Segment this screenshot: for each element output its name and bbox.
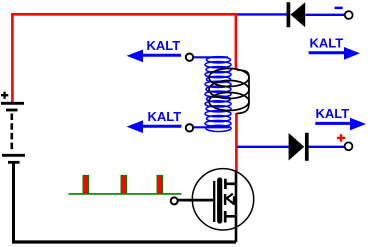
label KALT left top: [127, 38, 182, 62]
wire blue coil top lead: [193, 56, 228, 58]
wire black left vertical: [12, 163, 15, 243]
wire black bottom horizontal: [12, 240, 236, 243]
wire red top horizontal: [11, 13, 237, 16]
wire blue from top diode to terminal: [306, 14, 346, 16]
pulse 1: [83, 176, 88, 194]
wire blue to bottom diode: [237, 146, 289, 148]
pulse 2: [121, 176, 126, 194]
terminal minus top right: [345, 11, 353, 19]
diode D1: [288, 2, 305, 27]
wire red center vertical lower: [235, 113, 238, 172]
terminal gate: [171, 197, 178, 204]
battery B1: [1, 103, 25, 162]
MOSFET Q1 body circle: [192, 169, 253, 230]
svg-text:KALT: KALT: [147, 38, 181, 53]
wire blue coil bottom lead: [194, 126, 229, 128]
MOSFET Q1 source stub: [225, 211, 236, 223]
primary coil L1 blue: [205, 57, 231, 132]
label minus: [335, 7, 343, 10]
label KALT right bottom: [315, 106, 366, 130]
terminal coil bottom left: [186, 124, 193, 131]
label plus red: [337, 134, 345, 142]
label KALT left bottom: [127, 109, 182, 133]
MOSFET Q1 body tick: [224, 194, 226, 205]
MOSFET Q1 gate electrode: [213, 181, 215, 222]
terminal plus bottom right: [345, 142, 353, 150]
wire red center vertical upper: [235, 13, 238, 70]
svg-text:KALT: KALT: [148, 109, 182, 124]
MOSFET Q1 body arrow: [227, 194, 234, 204]
wire red left vertical: [11, 13, 14, 102]
label KALT right top: [309, 36, 360, 60]
MOSFET Q1 channel bar: [217, 180, 222, 221]
diode D2: [289, 133, 307, 161]
battery B1 plus label: [1, 92, 8, 99]
svg-text:KALT: KALT: [316, 106, 350, 121]
MOSFET Q1 gate lead: [178, 199, 214, 202]
secondary coil L2 black: [209, 69, 249, 114]
wire blue to top diode: [237, 13, 287, 15]
terminal coil top left: [186, 54, 193, 61]
wire black mosfet vertical: [235, 172, 238, 243]
svg-text:KALT: KALT: [310, 36, 344, 51]
pulse waveform baseline green: [69, 193, 182, 195]
wire blue from bottom diode to terminal: [308, 146, 345, 148]
MOSFET Q1 drain stub: [225, 179, 236, 189]
pulse 3: [157, 176, 162, 194]
